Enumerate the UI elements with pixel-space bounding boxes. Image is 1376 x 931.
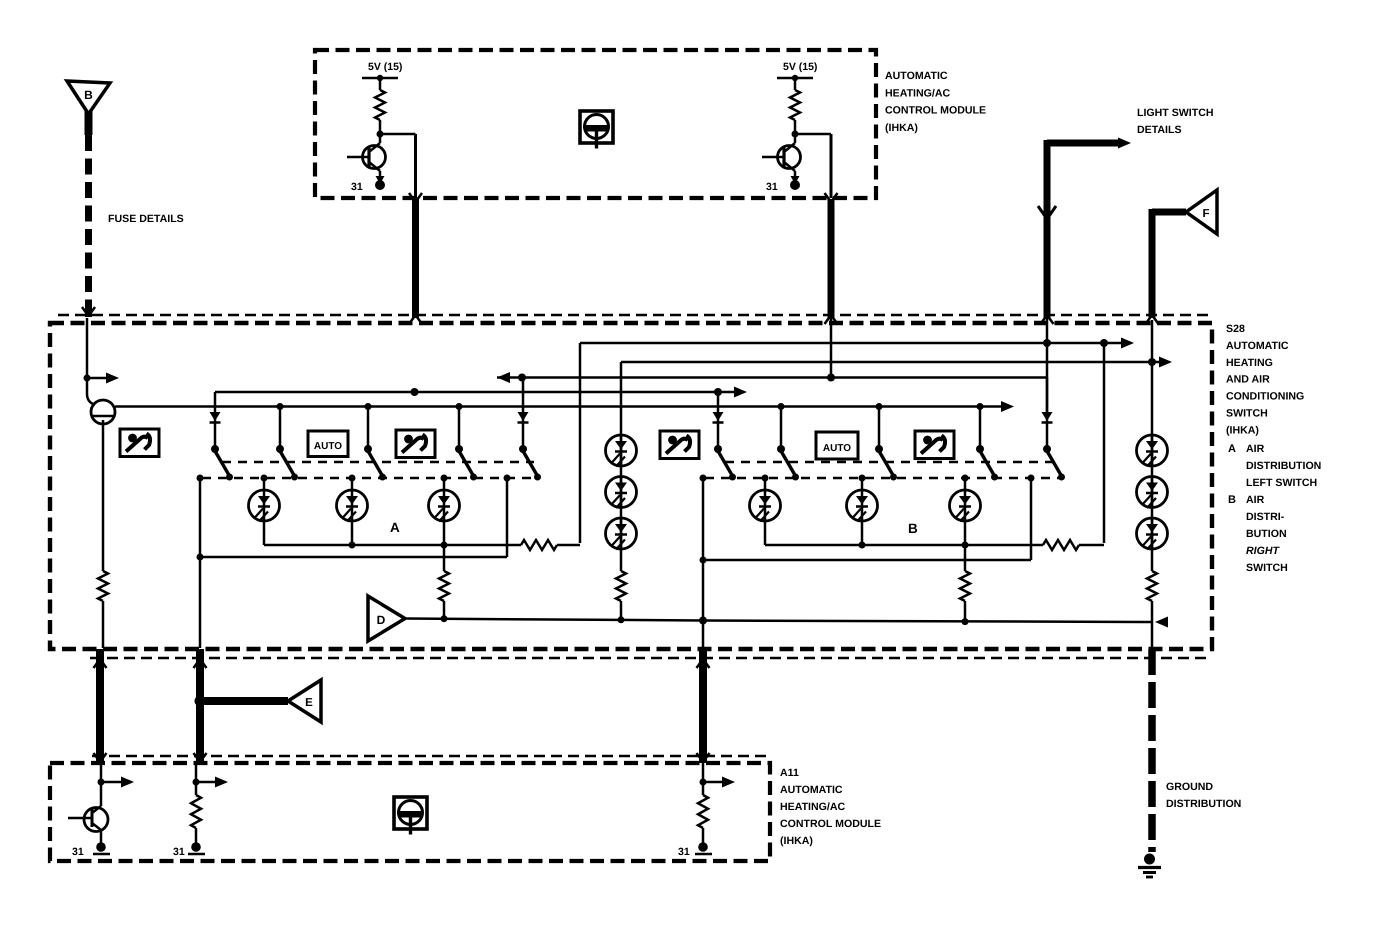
svg-text:AUTOMATIC: AUTOMATIC: [1226, 340, 1289, 352]
svg-text:DETAILS: DETAILS: [1137, 124, 1182, 136]
svg-text:B: B: [1228, 494, 1236, 506]
svg-text:CONTROL MODULE: CONTROL MODULE: [780, 818, 881, 830]
svg-text:SWITCH: SWITCH: [1246, 562, 1288, 574]
svg-text:HEATING: HEATING: [1226, 357, 1273, 369]
svg-text:S28: S28: [1226, 323, 1245, 335]
svg-text:AND AIR: AND AIR: [1226, 374, 1270, 386]
svg-text:31: 31: [173, 846, 185, 858]
svg-text:RIGHT: RIGHT: [1246, 545, 1280, 557]
svg-text:BUTION: BUTION: [1246, 528, 1287, 540]
svg-text:F: F: [1202, 208, 1209, 220]
svg-text:AUTO: AUTO: [314, 441, 342, 452]
svg-text:B: B: [84, 88, 93, 102]
svg-text:E: E: [305, 697, 313, 709]
svg-text:A: A: [1228, 443, 1236, 455]
svg-text:HEATING/AC: HEATING/AC: [885, 87, 950, 99]
svg-text:(IHKA): (IHKA): [1226, 424, 1259, 436]
svg-text:LIGHT SWITCH: LIGHT SWITCH: [1137, 107, 1214, 119]
svg-text:AUTOMATIC: AUTOMATIC: [780, 784, 843, 796]
svg-text:SWITCH: SWITCH: [1226, 408, 1268, 420]
svg-text:DISTRIBUTION: DISTRIBUTION: [1166, 798, 1241, 810]
svg-text:HEATING/AC: HEATING/AC: [780, 801, 845, 813]
svg-text:DISTRI-: DISTRI-: [1246, 511, 1285, 523]
svg-text:A: A: [390, 520, 400, 535]
svg-text:31: 31: [72, 846, 84, 858]
svg-text:CONDITIONING: CONDITIONING: [1226, 391, 1304, 403]
svg-text:5V (15): 5V (15): [783, 61, 817, 73]
svg-text:31: 31: [351, 181, 363, 193]
svg-text:D: D: [377, 613, 386, 627]
svg-text:AIR: AIR: [1246, 443, 1265, 455]
svg-text:5V (15): 5V (15): [368, 61, 402, 73]
svg-text:DISTRIBUTION: DISTRIBUTION: [1246, 460, 1321, 472]
svg-text:GROUND: GROUND: [1166, 781, 1213, 793]
svg-text:LEFT SWITCH: LEFT SWITCH: [1246, 477, 1317, 489]
svg-text:A11: A11: [780, 767, 799, 779]
svg-text:AUTO: AUTO: [823, 443, 851, 454]
svg-text:CONTROL MODULE: CONTROL MODULE: [885, 105, 986, 117]
svg-text:31: 31: [678, 846, 690, 858]
svg-text:31: 31: [766, 181, 778, 193]
svg-text:B: B: [908, 521, 918, 536]
svg-text:AUTOMATIC: AUTOMATIC: [885, 70, 948, 82]
svg-text:FUSE DETAILS: FUSE DETAILS: [108, 213, 184, 225]
svg-text:(IHKA): (IHKA): [780, 835, 813, 847]
svg-text:AIR: AIR: [1246, 494, 1265, 506]
svg-text:(IHKA): (IHKA): [885, 122, 918, 134]
